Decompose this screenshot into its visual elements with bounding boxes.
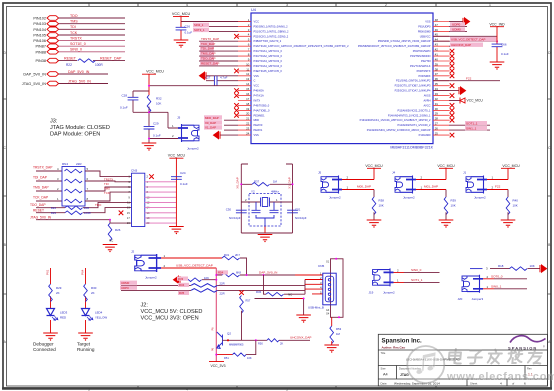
svg-text:VCC: VCC bbox=[254, 20, 260, 24]
svg-text:JTAG_5V0_IN: JTAG_5V0_IN bbox=[30, 215, 52, 219]
svg-text:TCK_DAP: TCK_DAP bbox=[33, 196, 49, 200]
svg-text:42: 42 bbox=[435, 48, 439, 52]
svg-text:J20: J20 bbox=[458, 297, 463, 301]
svg-text:TDO_DAP: TDO_DAP bbox=[201, 57, 216, 61]
svg-text:41: 41 bbox=[435, 53, 439, 57]
svg-text:USBVCC: USBVCC bbox=[420, 34, 431, 38]
svg-text:P60/SIN6_GTIOA2_2/INT15_VIC00_: P60/SIN6_GTIOA2_2/INT15_VIC00_GWKUP bbox=[378, 39, 431, 43]
svg-text:NC/10pF: NC/10pF bbox=[229, 216, 241, 220]
svg-text:RED: RED bbox=[60, 316, 66, 320]
svg-text:VCC_IND: VCC_IND bbox=[489, 22, 505, 26]
svg-text:17: 17 bbox=[246, 97, 250, 101]
svg-text:Jumper2: Jumper2 bbox=[474, 196, 486, 200]
svg-text:1M: 1M bbox=[273, 179, 278, 183]
svg-text:38: 38 bbox=[435, 67, 439, 71]
svg-text:P49/TIOB0_0: P49/TIOB0_0 bbox=[254, 103, 270, 107]
svg-text:MD0: MD0 bbox=[254, 118, 260, 122]
svg-text:43: 43 bbox=[435, 43, 439, 47]
svg-text:TMS: TMS bbox=[70, 20, 78, 24]
svg-text:C24: C24 bbox=[180, 171, 186, 175]
svg-text:Jumper2: Jumper2 bbox=[383, 291, 395, 295]
svg-text:VCC: VCC bbox=[254, 84, 260, 88]
svg-text:TDI: TDI bbox=[104, 182, 109, 186]
svg-text:2: 2 bbox=[385, 3, 387, 7]
svg-text:C27: C27 bbox=[205, 76, 211, 80]
svg-text:SIN0_0: SIN0_0 bbox=[411, 268, 422, 272]
svg-text:TCK: TCK bbox=[70, 31, 78, 35]
svg-text:VCC_MCU: VCC_MCU bbox=[172, 12, 191, 16]
svg-text:RESET_DAP: RESET_DAP bbox=[201, 62, 219, 66]
svg-text:P6F/MMWCROUT_VRTCCO_0/SUBOUT_2: P6F/MMWCROUT_VRTCCO_0/SUBOUT_2/GTIOB2_GW… bbox=[358, 44, 431, 48]
svg-text:47: 47 bbox=[435, 23, 439, 27]
svg-text:5: 5 bbox=[88, 3, 90, 7]
svg-text:J1: J1 bbox=[463, 171, 467, 175]
svg-text:4.7uF: 4.7uF bbox=[220, 76, 228, 80]
svg-text:P3D/TIOA3_1/RTCO3_0: P3D/TIOA3_1/RTCO3_0 bbox=[254, 59, 283, 63]
svg-text:22R: 22R bbox=[220, 292, 225, 296]
svg-text:27: 27 bbox=[435, 122, 439, 126]
svg-text:TRSTX_DAP: TRSTX_DAP bbox=[33, 166, 53, 170]
svg-text:0.1uF: 0.1uF bbox=[501, 52, 509, 56]
svg-text:Jumper2: Jumper2 bbox=[403, 196, 415, 200]
svg-text:P02/TDI: P02/TDI bbox=[421, 59, 431, 63]
svg-text:TCK_DAP: TCK_DAP bbox=[201, 42, 215, 46]
svg-text:P3C/TIOA1_1/RTCO1_0: P3C/TIOA1_1/RTCO1_0 bbox=[254, 49, 283, 53]
svg-text:SOT0_0: SOT0_0 bbox=[491, 274, 503, 278]
svg-text:100R: 100R bbox=[95, 63, 103, 67]
svg-text:46: 46 bbox=[435, 28, 439, 32]
svg-text:VCC_3V3: VCC_3V3 bbox=[210, 364, 225, 368]
svg-text:PE2/X0: PE2/X0 bbox=[254, 123, 263, 127]
svg-text:0.1uF: 0.1uF bbox=[120, 106, 128, 110]
svg-text:Connected: Connected bbox=[33, 347, 56, 352]
svg-text:5: 5 bbox=[88, 388, 90, 391]
svg-text:TDO_DAP: TDO_DAP bbox=[30, 203, 46, 207]
svg-text:J3: J3 bbox=[177, 116, 181, 120]
svg-text:P00/TRSTX: P00/TRSTX bbox=[417, 69, 431, 73]
svg-text:29: 29 bbox=[435, 112, 439, 116]
svg-text:12: 12 bbox=[246, 72, 250, 76]
svg-text:JTAG: JTAG bbox=[400, 373, 409, 377]
svg-text:P04/TDO/SWO: P04/TDO/SWO bbox=[413, 49, 431, 53]
svg-text:C66: C66 bbox=[501, 43, 507, 47]
svg-text:P4A/TIOB1_0: P4A/TIOB1_0 bbox=[254, 108, 271, 112]
svg-text:TDI_DAP: TDI_DAP bbox=[201, 47, 214, 51]
svg-text:24: 24 bbox=[246, 132, 250, 136]
svg-text:P47/X1A: P47/X1A bbox=[254, 94, 265, 98]
svg-text:R39: R39 bbox=[451, 199, 457, 203]
svg-text:AVCC: AVCC bbox=[423, 103, 430, 107]
svg-text:TRSTX: TRSTX bbox=[104, 178, 113, 182]
svg-text:22: 22 bbox=[246, 122, 250, 126]
svg-text:R38: R38 bbox=[379, 199, 385, 203]
svg-text:TDI: TDI bbox=[70, 25, 76, 29]
svg-text:VSS: VSS bbox=[425, 20, 430, 24]
svg-text:C30: C30 bbox=[226, 208, 232, 212]
svg-text:X0_DAP: X0_DAP bbox=[205, 121, 216, 125]
svg-text:R31: R31 bbox=[224, 253, 230, 257]
svg-text:10K: 10K bbox=[247, 356, 252, 360]
svg-text:4: 4 bbox=[186, 388, 188, 391]
svg-text:P21/SIN0_GINT06_1/WKUP2: P21/SIN0_GINT06_1/WKUP2 bbox=[396, 79, 431, 83]
svg-text:R29: R29 bbox=[56, 286, 62, 290]
svg-text:P81/UDP0: P81/UDP0 bbox=[418, 24, 431, 28]
svg-text:0.1uF: 0.1uF bbox=[185, 31, 193, 35]
svg-text:3: 3 bbox=[286, 3, 288, 7]
svg-text:TDO: TDO bbox=[95, 203, 102, 207]
svg-text:P13/AN03/SCK1_1/VIC01_2/RTCCO_: P13/AN03/SCK1_1/VIC01_2/RTCCO_1/SUBOUT_1… bbox=[360, 118, 431, 122]
svg-text:RN4: RN4 bbox=[62, 162, 68, 166]
svg-text:39: 39 bbox=[435, 62, 439, 66]
svg-text:R54: R54 bbox=[218, 271, 224, 275]
svg-text:2K7: 2K7 bbox=[235, 253, 240, 257]
svg-text:30: 30 bbox=[435, 107, 439, 111]
svg-text:VCC_MCU: VCC_MCU bbox=[502, 164, 520, 168]
svg-text:F22: F22 bbox=[466, 77, 472, 81]
svg-text:R50: R50 bbox=[258, 342, 263, 346]
svg-text:R40: R40 bbox=[513, 199, 519, 203]
svg-text:NC: NC bbox=[288, 292, 292, 296]
svg-text:PE3/X1: PE3/X1 bbox=[254, 128, 263, 132]
svg-text:10: 10 bbox=[246, 62, 250, 66]
svg-text:P0F/NMIX: P0F/NMIX bbox=[419, 74, 431, 78]
svg-text:VSS: VSS bbox=[254, 133, 259, 137]
svg-text:UDM0: UDM0 bbox=[452, 28, 461, 32]
svg-text:Jumper2: Jumper2 bbox=[329, 196, 341, 200]
svg-text:18: 18 bbox=[246, 102, 250, 106]
svg-text:Y2: Y2 bbox=[251, 189, 255, 193]
svg-text:10K: 10K bbox=[204, 276, 209, 280]
svg-text:32: 32 bbox=[435, 97, 439, 101]
svg-text:Title: Title bbox=[381, 351, 386, 355]
svg-text:PIN102: PIN102 bbox=[33, 17, 46, 21]
svg-text:PIN106: PIN106 bbox=[33, 39, 46, 43]
svg-text:16: 16 bbox=[246, 92, 250, 96]
svg-text:P11/AN01/SIN1_1/INT02_1/VFRCKO: P11/AN01/SIN1_1/INT02_1/VFRCKO_2/RCO_GWK… bbox=[367, 128, 431, 132]
svg-text:22R: 22R bbox=[76, 162, 82, 166]
svg-text:Date:: Date: bbox=[381, 381, 388, 385]
svg-text:J3:: J3: bbox=[50, 119, 58, 125]
svg-text:UHCONX_DAP: UHCONX_DAP bbox=[451, 43, 471, 47]
svg-text:R30: R30 bbox=[91, 286, 97, 290]
svg-text:P10/AN00: P10/AN00 bbox=[419, 133, 431, 137]
svg-text:CN3: CN3 bbox=[131, 169, 137, 173]
svg-text:R35: R35 bbox=[179, 291, 185, 295]
svg-text:P46/X0A: P46/X0A bbox=[254, 89, 265, 93]
svg-text:R23: R23 bbox=[51, 211, 57, 215]
svg-text:J2:: J2: bbox=[141, 303, 149, 309]
svg-text:R51: R51 bbox=[224, 356, 229, 360]
svg-text:LED4: LED4 bbox=[95, 311, 103, 315]
svg-text:RESET: RESET bbox=[33, 208, 44, 212]
svg-text:31: 31 bbox=[435, 102, 439, 106]
svg-text:40: 40 bbox=[435, 57, 439, 61]
svg-text:TMS_DAP: TMS_DAP bbox=[33, 186, 49, 190]
svg-text:PIN88: PIN88 bbox=[35, 50, 46, 54]
svg-text:CN5: CN5 bbox=[318, 264, 324, 268]
svg-text:TRSTX: TRSTX bbox=[70, 36, 82, 40]
svg-text:4MHz: 4MHz bbox=[271, 189, 279, 193]
svg-text:TCK: TCK bbox=[104, 191, 110, 195]
svg-text:TDI_DAP: TDI_DAP bbox=[33, 176, 48, 180]
svg-text:P22/SOT0_GTIOB7_1/WKUP3: P22/SOT0_GTIOB7_1/WKUP3 bbox=[395, 84, 431, 88]
svg-text:Running: Running bbox=[77, 347, 95, 352]
svg-text:P23/SCK0_GTIOA7_1/WKUP4: P23/SCK0_GTIOA7_1/WKUP4 bbox=[395, 89, 431, 93]
svg-text:10K: 10K bbox=[451, 204, 456, 208]
svg-text:M00_DAP: M00_DAP bbox=[357, 185, 371, 189]
svg-text:Rev: Rev bbox=[527, 366, 532, 370]
svg-text:C28: C28 bbox=[122, 93, 128, 97]
svg-text:C31: C31 bbox=[295, 208, 301, 212]
svg-text:P64: P64 bbox=[81, 269, 85, 275]
svg-text:www.elecfans.com: www.elecfans.com bbox=[446, 371, 554, 383]
svg-text:P15/AN05/VIC02_2/SOT0_1: P15/AN05/VIC02_2/SOT0_1 bbox=[397, 108, 431, 112]
svg-text:C26: C26 bbox=[185, 25, 191, 29]
svg-text:DAP_5V0_IN: DAP_5V0_IN bbox=[259, 271, 277, 275]
svg-text:P03/TMS/SWDIO: P03/TMS/SWDIO bbox=[410, 54, 430, 58]
svg-text:VCC_MCU: VCC_MCU bbox=[146, 70, 164, 74]
svg-text:4: 4 bbox=[186, 3, 188, 7]
svg-text:PIN87: PIN87 bbox=[35, 45, 46, 49]
svg-text:P01/TCK/SWCLK: P01/TCK/SWCLK bbox=[410, 64, 431, 68]
svg-text:UDM0: UDM0 bbox=[121, 281, 130, 285]
svg-text:Spansion Inc.: Spansion Inc. bbox=[382, 338, 423, 345]
svg-text:21: 21 bbox=[246, 117, 250, 121]
svg-text:R53: R53 bbox=[336, 327, 342, 331]
svg-text:R32: R32 bbox=[156, 97, 162, 101]
svg-text:R22: R22 bbox=[66, 63, 72, 67]
svg-text:15: 15 bbox=[246, 87, 250, 91]
svg-text:SIN1_1: SIN1_1 bbox=[466, 126, 477, 130]
svg-text:U4: U4 bbox=[251, 8, 256, 12]
svg-text:VCC_MCU 5V: CLOSED: VCC_MCU 5V: CLOSED bbox=[141, 309, 203, 315]
svg-text:UDP0: UDP0 bbox=[121, 286, 129, 290]
svg-text:SIN3_1: SIN3_1 bbox=[194, 23, 204, 27]
svg-text:TMS: TMS bbox=[104, 186, 110, 190]
svg-text:Jumper2: Jumper2 bbox=[145, 275, 157, 279]
svg-text:25: 25 bbox=[435, 132, 439, 136]
svg-text:C29: C29 bbox=[153, 122, 159, 126]
svg-text:VCC_MCU: VCC_MCU bbox=[437, 164, 455, 168]
svg-text:INITX: INITX bbox=[254, 99, 261, 103]
svg-text:USB_VCC_DETECT_DAP: USB_VCC_DETECT_DAP bbox=[176, 264, 213, 268]
svg-text:33: 33 bbox=[435, 92, 439, 96]
svg-text:DAP Module: OPEN: DAP Module: OPEN bbox=[50, 132, 100, 138]
svg-text:JTAG Module: CLOSED: JTAG Module: CLOSED bbox=[50, 125, 110, 131]
svg-text:19: 19 bbox=[246, 107, 250, 111]
svg-text:Jumper3: Jumper3 bbox=[472, 297, 484, 301]
svg-text:VCC_MCU: VCC_MCU bbox=[467, 99, 484, 103]
svg-text:R36: R36 bbox=[256, 290, 262, 294]
svg-text:A4: A4 bbox=[383, 373, 388, 377]
svg-text:Author: Rex.Cao: Author: Rex.Cao bbox=[382, 345, 406, 349]
svg-text:R57: R57 bbox=[246, 299, 251, 303]
svg-text:R18: R18 bbox=[498, 264, 504, 268]
svg-text:MB9AF3111OMB9BF321K: MB9AF3111OMB9BF321K bbox=[390, 146, 433, 150]
svg-text:SIN0_1: SIN0_1 bbox=[491, 284, 502, 288]
svg-text:MD0_DAP: MD0_DAP bbox=[205, 116, 219, 120]
svg-text:48: 48 bbox=[435, 18, 439, 22]
svg-text:0.1uF: 0.1uF bbox=[180, 182, 188, 186]
svg-text:Target: Target bbox=[77, 342, 91, 347]
svg-text:2K: 2K bbox=[280, 342, 283, 346]
svg-text:J5: J5 bbox=[318, 171, 322, 175]
svg-text:RESET: RESET bbox=[64, 56, 77, 60]
svg-text:P50/SIN3_1/INT00_0/AIN0_2: P50/SIN3_1/INT00_0/AIN0_2 bbox=[254, 24, 289, 28]
svg-text:Q2: Q2 bbox=[227, 331, 231, 335]
svg-text:USB-Mini_B: USB-Mini_B bbox=[308, 306, 324, 310]
svg-text:C: C bbox=[254, 79, 256, 83]
svg-text:22R: 22R bbox=[84, 206, 89, 210]
svg-text:22R: 22R bbox=[220, 282, 225, 286]
svg-text:SOT1_1: SOT1_1 bbox=[466, 122, 478, 126]
svg-text:10K: 10K bbox=[379, 204, 384, 208]
svg-text:P3C/TIOA2_1/RTCO2_0: P3C/TIOA2_1/RTCO2_0 bbox=[254, 54, 283, 58]
svg-text:Jumper2: Jumper2 bbox=[187, 147, 199, 151]
svg-text:SOT1_1: SOT1_1 bbox=[411, 278, 423, 282]
svg-text:RESET_DAP: RESET_DAP bbox=[100, 56, 122, 60]
svg-text:SIN0_0: SIN0_0 bbox=[70, 48, 82, 52]
svg-text:TRSTX_DAP: TRSTX_DAP bbox=[201, 37, 219, 41]
svg-text:AVSS: AVSS bbox=[424, 94, 431, 98]
svg-text:P3A/TIOA0_1/RTCCO_GRTCCO_2/SUB: P3A/TIOA0_1/RTCCO_GRTCCO_2/SUBOUT_2/P61/… bbox=[254, 44, 350, 48]
svg-text:1M: 1M bbox=[336, 332, 341, 336]
svg-text:P3D/TIOA4_1/RTCO4_0: P3D/TIOA4_1/RTCO4_0 bbox=[254, 64, 283, 68]
svg-text:YELLOW: YELLOW bbox=[95, 316, 107, 320]
svg-text:DAP_5V0_IN: DAP_5V0_IN bbox=[68, 70, 90, 74]
svg-text:37: 37 bbox=[435, 72, 439, 76]
svg-text:0.1uF: 0.1uF bbox=[153, 134, 161, 138]
svg-text:6K8: 6K8 bbox=[236, 271, 241, 275]
svg-text:JTAG_5V0_IN: JTAG_5V0_IN bbox=[68, 79, 91, 83]
svg-text:100R: 100R bbox=[84, 211, 91, 215]
svg-text:2K: 2K bbox=[91, 291, 95, 295]
svg-text:M01_DAP: M01_DAP bbox=[424, 185, 438, 189]
svg-text:28: 28 bbox=[435, 117, 439, 121]
svg-text:PIN104: PIN104 bbox=[33, 28, 46, 32]
svg-text:MMBMR905: MMBMR905 bbox=[229, 342, 244, 346]
svg-text:PIN103: PIN103 bbox=[33, 22, 46, 26]
svg-text:P52/SCK3_1/INT02_GZIN0_2: P52/SCK3_1/INT02_GZIN0_2 bbox=[254, 34, 289, 38]
svg-text:PIN38: PIN38 bbox=[35, 59, 46, 63]
svg-text:NC/10pF: NC/10pF bbox=[295, 216, 307, 220]
svg-text:DAP_5V0_IN: DAP_5V0_IN bbox=[23, 73, 46, 77]
svg-text:R33: R33 bbox=[178, 277, 184, 281]
svg-text:UDP0: UDP0 bbox=[452, 23, 461, 27]
svg-text:JTAG_5V0_IN: JTAG_5V0_IN bbox=[22, 82, 46, 86]
svg-text:26: 26 bbox=[435, 127, 439, 131]
svg-text:X1_DAP: X1_DAP bbox=[205, 126, 216, 130]
svg-text:23: 23 bbox=[246, 127, 250, 131]
svg-text:TDO: TDO bbox=[70, 14, 78, 18]
svg-text:R24: R24 bbox=[51, 206, 57, 210]
svg-text:1: 1 bbox=[489, 3, 491, 7]
svg-text:J19: J19 bbox=[369, 291, 374, 295]
svg-text:TMS_DAP: TMS_DAP bbox=[201, 52, 216, 56]
svg-text:Debugger: Debugger bbox=[33, 342, 54, 347]
svg-text:SOT1E_0: SOT1E_0 bbox=[70, 42, 86, 46]
svg-text:®: ® bbox=[543, 346, 545, 349]
svg-text:P61: P61 bbox=[46, 269, 50, 275]
svg-text:3: 3 bbox=[286, 388, 288, 391]
svg-text:2K: 2K bbox=[56, 291, 60, 295]
svg-text:PIN105: PIN105 bbox=[33, 34, 46, 38]
svg-text:10K: 10K bbox=[513, 204, 518, 208]
svg-text:13: 13 bbox=[246, 77, 250, 81]
svg-text:14: 14 bbox=[246, 82, 250, 86]
svg-text:VCC_MCU: VCC_MCU bbox=[365, 164, 383, 168]
svg-text:Size: Size bbox=[381, 366, 387, 370]
svg-text:R26: R26 bbox=[115, 228, 121, 232]
svg-text:P3E/TIOA5_1/RTCO5_0: P3E/TIOA5_1/RTCO5_0 bbox=[254, 69, 283, 73]
svg-text:R34: R34 bbox=[179, 283, 185, 287]
svg-text:10K: 10K bbox=[530, 264, 535, 268]
svg-text:LED3: LED3 bbox=[60, 311, 68, 315]
svg-text:VCC_MCU: VCC_MCU bbox=[168, 154, 186, 158]
svg-text:10K: 10K bbox=[156, 102, 161, 106]
svg-text:PE0/MD1: PE0/MD1 bbox=[254, 113, 266, 117]
svg-text:SOT3_1: SOT3_1 bbox=[194, 28, 205, 32]
svg-text:35: 35 bbox=[435, 82, 439, 86]
svg-text:P3B/DTTI0X_0/ACT0_2: P3B/DTTI0X_0/ACT0_2 bbox=[254, 39, 282, 43]
svg-text:P14/AN04/INT03_1/VIC02_2/SIN0_: P14/AN04/INT03_1/VIC02_2/SIN0_1 bbox=[388, 113, 431, 117]
svg-text:P51/SOT3_1/INT01_GBIN0_2: P51/SOT3_1/INT01_GBIN0_2 bbox=[254, 29, 289, 33]
svg-text:VCC_MCU 3V3: OPEN: VCC_MCU 3V3: OPEN bbox=[141, 316, 199, 322]
svg-text:USB_VCC_DETECT_DAP: USB_VCC_DETECT_DAP bbox=[451, 38, 485, 42]
svg-text:X0_DAP: X0_DAP bbox=[235, 177, 239, 189]
svg-text:J2: J2 bbox=[131, 250, 135, 254]
svg-text:UHCONX_DAP: UHCONX_DAP bbox=[290, 336, 312, 340]
svg-text:R37: R37 bbox=[254, 179, 260, 183]
svg-text:VSS: VSS bbox=[254, 74, 259, 78]
svg-text:F22: F22 bbox=[495, 185, 501, 189]
svg-text:P12/AN02/SOT1_1/VIC00_2: P12/AN02/SOT1_1/VIC00_2 bbox=[397, 123, 431, 127]
svg-text:X1_DAP: X1_DAP bbox=[288, 177, 292, 189]
svg-text:11: 11 bbox=[246, 67, 249, 71]
svg-text:20: 20 bbox=[246, 112, 250, 116]
svg-text:J4: J4 bbox=[392, 171, 396, 175]
svg-text:AVRH: AVRH bbox=[423, 99, 430, 103]
svg-text:P80/UDM0: P80/UDM0 bbox=[418, 29, 431, 33]
